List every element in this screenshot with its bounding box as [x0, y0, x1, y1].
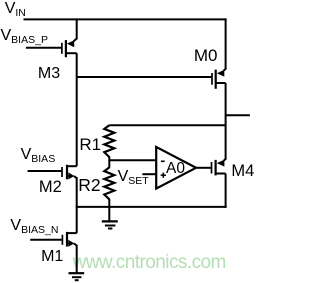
wire: VSET stub to op-amp non-inverting input [142, 173, 156, 175]
A0 triangle body [156, 147, 196, 189]
M0 gate plate [211, 73, 213, 85]
M3 drain lead [66, 52, 77, 54]
wire: bottom loop (M4 source to left trunk) [76, 206, 227, 208]
A0 minus sign [161, 160, 165, 162]
M0 source lead (diagonal) [224, 68, 227, 70]
M4 source lead [216, 173, 226, 175]
op-amp A0 label [166, 161, 185, 177]
watermark www.cntronics.com [73, 253, 226, 272]
transistor M0 (PMOS) [212, 68, 226, 89]
M3 source lead (diagonal) [74, 38, 78, 41]
M4 gate plate [211, 162, 213, 174]
wire: right rail upper (VIN corner to M0 source) [225, 18, 227, 68]
node VIN label [5, 1, 26, 17]
resistor R1 label [79, 136, 101, 153]
M1 gate wire from VBIAS_N [30, 239, 61, 241]
M2 drain lead [67, 165, 77, 167]
transistor M3 label [38, 66, 60, 82]
M1 source arrow [68, 240, 74, 247]
wire: output stub right [226, 114, 250, 116]
transistor M2 (NMOS) [28, 165, 77, 180]
M3 source arrow [67, 40, 74, 47]
wire: right rail lower (M4 source down to bottom loop) [225, 174, 227, 208]
node VBIAS label [21, 147, 56, 163]
wire: R1 bottom to R2 top link [108, 157, 110, 168]
transistor M0 label [194, 47, 218, 64]
M2 gate wire from VBIAS [28, 170, 62, 172]
wire: left trunk seg2 (M3 drain to M2 drain) [76, 53, 78, 166]
M4 drain lead (diagonal) [224, 158, 227, 160]
wire: R2 bottom lead to ground [108, 199, 110, 221]
M3 gate plate [61, 43, 63, 54]
M0 drain lead [216, 82, 226, 84]
wire: R1 top to right rail [109, 124, 226, 126]
M4 channel [215, 160, 217, 176]
wire: left trunk seg4 (M1 source to ground) [76, 245, 78, 273]
transistor M3 (PMOS) [26, 38, 77, 57]
ground under R2 [102, 221, 118, 228]
wire: VIN top rail [24, 18, 227, 20]
transistor M4 (pass device) [212, 158, 227, 175]
M1 source lead [67, 242, 70, 244]
M2 channel [66, 165, 68, 180]
M0 channel [215, 70, 217, 89]
resistor R2 label [78, 177, 100, 195]
M3 gate wire from VBIAS_P [26, 47, 61, 49]
wire: R1/R2 junction to op-amp inverting input [109, 159, 156, 161]
node VBIAS_N label [10, 218, 58, 234]
node VBIAS_P label [1, 28, 48, 44]
transistor M4 label [231, 163, 254, 180]
node VSET label [118, 169, 149, 185]
wire: left trunk seg3 (M2 source to M1 drain) [76, 177, 78, 233]
M2 source lead [67, 175, 70, 177]
M3 channel [65, 40, 67, 57]
A0 output wire to M4 gate [195, 167, 210, 169]
ground under M1 [69, 273, 85, 280]
wire: right rail mid (M0 drain down to M4 drain) [225, 83, 227, 159]
M1 channel [66, 232, 68, 247]
transistor M2 label [39, 179, 62, 196]
A0 plus sign [161, 174, 166, 176]
wire: M0 gate line from trunk [77, 76, 212, 78]
M1 drain lead [67, 232, 77, 234]
resistor R2 [104, 167, 114, 199]
transistor M1 label [41, 249, 63, 265]
resistor R1 [104, 125, 114, 157]
M2 source arrow [68, 172, 74, 179]
M4 drain arrow [217, 160, 225, 167]
op-amp A0 [156, 147, 211, 189]
M1 gate plate [61, 235, 63, 245]
transistor M1 (NMOS) [30, 232, 76, 247]
M0 source arrow [217, 70, 224, 77]
wire: left trunk seg1 (VIN rail to M3 source) [76, 18, 78, 39]
M2 gate plate [61, 167, 63, 177]
